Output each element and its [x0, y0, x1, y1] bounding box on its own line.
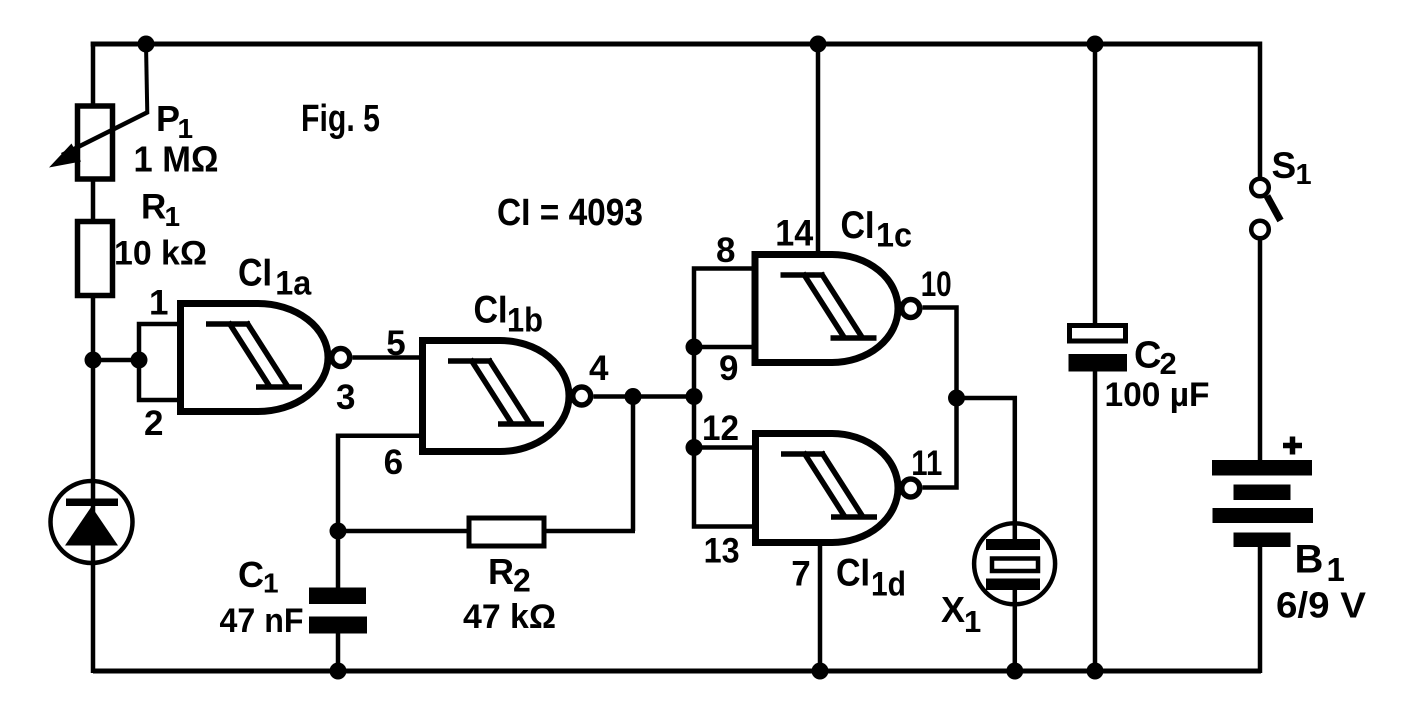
X1 bottom element bar	[986, 579, 1040, 591]
wire output node to transducer X1	[957, 398, 1015, 526]
wire into X1 top element	[1013, 526, 1018, 540]
indicator diode (LED) circle	[51, 481, 133, 563]
svg-text:R: R	[141, 188, 166, 227]
svg-text:6/9 V: 6/9 V	[1276, 585, 1366, 626]
wire node B to R2 left	[338, 529, 469, 534]
svg-text:1c: 1c	[876, 217, 912, 255]
junction CI1a input bracket	[131, 352, 148, 369]
P1 wiper diagonal arrow shaft	[62, 112, 148, 155]
svg-text:1: 1	[1296, 159, 1312, 191]
wire pin 14 to top rail	[816, 44, 821, 255]
junction C2 / ground rail	[1087, 663, 1104, 680]
svg-text:R: R	[488, 551, 514, 592]
wire top rail to C2	[1093, 42, 1098, 325]
wire X1 bottom to ground rail	[1013, 589, 1018, 673]
op: NAND CI1b output inversion bubble	[573, 387, 591, 405]
junction node 4 / R2 branch	[625, 388, 642, 405]
wire S1 to battery B1	[1258, 239, 1263, 462]
svg-text:2: 2	[513, 563, 531, 599]
svg-text:C: C	[1134, 335, 1161, 377]
junction pin7 wire / ground rail	[812, 663, 829, 680]
wire pin 11 to output node	[922, 398, 956, 488]
diode cathode bar	[66, 499, 118, 507]
wire B1 to ground rail	[1258, 547, 1263, 673]
diode anode triangle	[65, 507, 118, 546]
svg-text:Fig. 5: Fig. 5	[301, 98, 380, 140]
capacitor C2 top plate (hollow, +)	[1070, 326, 1126, 342]
wire node A to CI1a input bracket	[93, 358, 140, 363]
wire node 4 down to R2 right	[631, 397, 636, 532]
wire pin 6 down to node B	[338, 436, 423, 531]
svg-text:8: 8	[716, 231, 735, 270]
transducer X1 circle	[974, 523, 1055, 604]
svg-text:14: 14	[775, 213, 813, 254]
svg-text:7: 7	[791, 555, 810, 594]
op: NAND CI1c hysteresis symbol	[781, 273, 877, 338]
switch S1 upper contact	[1251, 179, 1269, 197]
wire stub pin 12	[694, 445, 756, 450]
svg-text:CI: CI	[238, 252, 272, 295]
input bracket tying pins 8,9,12,13 to node 4	[694, 269, 756, 527]
capacitor C1 bottom plate	[309, 617, 367, 634]
battery B1 plate 2 (short)	[1234, 485, 1291, 501]
svg-text:13: 13	[704, 532, 740, 571]
op: NAND CI1a hysteresis symbol	[206, 322, 302, 387]
op: NAND CI1d gate body	[756, 434, 899, 543]
wire C2 to ground rail	[1093, 371, 1098, 673]
svg-text:X: X	[941, 589, 965, 630]
svg-text:47 kΩ: 47 kΩ	[463, 598, 556, 636]
svg-text:4: 4	[589, 349, 609, 388]
svg-text:10: 10	[921, 265, 952, 304]
svg-text:11: 11	[911, 444, 942, 483]
svg-text:1: 1	[1327, 551, 1345, 588]
wire pin 10 to output node	[922, 308, 956, 399]
op: NAND CI1d hysteresis symbol	[781, 452, 877, 517]
svg-text:3: 3	[336, 378, 355, 417]
resistor R1 body	[78, 222, 113, 296]
svg-text:1d: 1d	[871, 566, 906, 604]
potentiometer P1 body	[78, 106, 113, 179]
svg-text:1 MΩ: 1 MΩ	[134, 139, 219, 180]
junction C2 / top rail	[1087, 36, 1104, 53]
wire R1 bottom through LED to bottom rail	[91, 295, 96, 673]
junction bracket node 4 entry	[686, 388, 703, 405]
X1 middle element (hollow)	[992, 559, 1038, 572]
svg-text:CI = 4093: CI = 4093	[497, 192, 643, 234]
wire C1 bottom plate to ground rail	[336, 633, 341, 671]
svg-text:C: C	[238, 554, 264, 595]
svg-text:10 kΩ: 10 kΩ	[114, 235, 207, 273]
wire bottom ground rail	[93, 669, 1261, 674]
switch S1 lower contact	[1251, 221, 1269, 239]
svg-text:1b: 1b	[507, 302, 543, 340]
wire stub pin 9	[694, 345, 755, 350]
op: NAND CI1a output inversion bubble	[332, 349, 350, 367]
op: NAND CI1d output inversion bubble	[902, 479, 920, 497]
svg-text:1: 1	[964, 604, 981, 639]
junction top rail / P1 wiper	[138, 36, 155, 53]
junction bracket pin 12	[686, 439, 703, 456]
op: NAND CI1b hysteresis symbol	[448, 359, 544, 424]
svg-text:S: S	[1272, 145, 1297, 186]
svg-text:47 nF: 47 nF	[220, 602, 304, 640]
wire top rail right corner down to S1	[1258, 42, 1263, 181]
op: NAND CI1c output inversion bubble	[902, 300, 920, 318]
svg-text:P: P	[156, 98, 180, 139]
P1 wiper arrowhead	[49, 144, 81, 168]
wire pin 3 to pin 5	[352, 355, 423, 360]
capacitor C1 top plate	[309, 588, 366, 605]
CI1a input bracket tying pins 1 and 2	[139, 324, 179, 400]
wire node B down to C1 top plate	[336, 531, 341, 589]
svg-text:1: 1	[263, 568, 279, 599]
op: NAND CI1b gate body	[423, 341, 570, 452]
svg-text:1: 1	[149, 284, 168, 323]
junction left rail node A	[85, 352, 102, 369]
op: NAND CI1c gate body	[755, 255, 898, 363]
wire pin 7 to ground rail	[818, 542, 823, 673]
junction pin14 wire / top rail	[810, 36, 827, 53]
svg-text:2: 2	[144, 404, 163, 443]
junction node B (pin6 / C1 / R2)	[330, 523, 347, 540]
wire pin 4 to input bracket of CI1c/CI1d	[593, 394, 696, 399]
svg-text:1: 1	[165, 201, 181, 232]
junction bracket pin 9	[686, 339, 703, 356]
wire R2 right to node 4 drop	[544, 529, 635, 534]
svg-text:B: B	[1295, 538, 1324, 582]
battery B1 plate 3 (long)	[1213, 508, 1314, 523]
junction output node pins 10/11	[948, 390, 965, 407]
wire P1 bottom to R1 top	[91, 179, 96, 223]
junction C1 / ground rail	[330, 663, 347, 680]
battery B1 plus sign	[1283, 437, 1302, 455]
wire top supply rail	[91, 42, 1260, 47]
svg-text:100 µF: 100 µF	[1105, 376, 1210, 414]
svg-text:5: 5	[386, 324, 405, 363]
battery B1 plate 1 (long)	[1212, 460, 1312, 476]
svg-text:CI: CI	[474, 289, 508, 332]
svg-text:12: 12	[702, 409, 739, 448]
svg-text:CI: CI	[841, 204, 875, 247]
svg-text:6: 6	[384, 443, 403, 482]
svg-text:1a: 1a	[275, 265, 312, 303]
svg-text:CI: CI	[836, 552, 870, 595]
op: NAND CI1a gate body	[181, 304, 329, 412]
X1 top element bar	[986, 539, 1040, 550]
wire P1 wiper to top rail	[146, 44, 147, 114]
switch S1 blade	[1267, 196, 1281, 221]
svg-text:9: 9	[719, 349, 738, 388]
junction X1 / ground rail	[1006, 663, 1023, 680]
wire left rail: top rail to P1	[91, 42, 96, 108]
battery B1 plate 4 (short)	[1234, 533, 1291, 548]
capacitor C2 bottom plate	[1069, 354, 1128, 372]
resistor R2 body	[469, 518, 544, 546]
